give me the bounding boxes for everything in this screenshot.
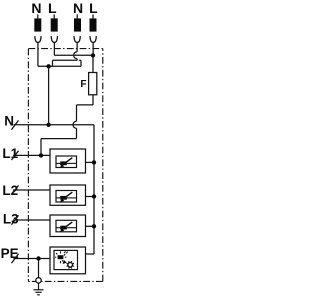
terminal circle (external PE) [36, 278, 41, 283]
ground [34, 283, 44, 295]
node SPD2 output [92, 194, 96, 198]
label PE (left) [1, 246, 19, 261]
terminal N2 label [73, 0, 83, 16]
wire to fuse [92, 55, 94, 72]
wire fuse output to feed [77, 104, 94, 106]
wire N1 down-right to jumper (wire A) [38, 65, 81, 67]
svg-text:N: N [73, 0, 83, 16]
SPD module L3 (U3) [50, 215, 94, 237]
node N-jumper junction [46, 64, 50, 68]
terminal L1(top) [51, 14, 58, 55]
node L-terminal junction [91, 53, 95, 57]
svg-text:F: F [80, 79, 86, 90]
wire L2 [13, 189, 50, 191]
arrow L3 entry [12, 215, 19, 224]
wire feed hop over N wire [73, 121, 77, 128]
wire L terminals bus (top) [54, 54, 93, 56]
node L1 [39, 153, 43, 157]
node SPD1 output [92, 160, 96, 164]
wire N bus down [93, 125, 95, 254]
wire jumper top (wire B) [53, 59, 78, 61]
terminal L1(top) label [48, 0, 57, 16]
terminal L2(top) label [89, 0, 98, 16]
label L1 (left) [2, 146, 18, 161]
node SPD3 output [92, 224, 96, 228]
spark gap electrode bar [58, 255, 64, 259]
arrowhead of discharge [63, 260, 67, 264]
terminal N1 [34, 14, 41, 66]
wire L1 [13, 154, 50, 156]
node N [46, 123, 50, 127]
SPD module L2 (U2) [50, 185, 94, 205]
wire riser left of jumper [52, 60, 54, 66]
wire riser right of jumper [80, 60, 82, 66]
terminal L2(top) [90, 14, 97, 55]
svg-text:L: L [48, 0, 57, 16]
terminal N2 [74, 14, 81, 51]
label N (left) [4, 114, 14, 129]
wire L3 [13, 219, 50, 221]
wire feed to L1 node [41, 138, 77, 140]
node PE [36, 256, 40, 260]
SPD module L1 (U1) [50, 149, 94, 173]
wire PE down to earth terminal [38, 259, 40, 278]
arrow PE entry [12, 254, 19, 263]
enclosure dash-dot border [28, 49, 102, 282]
arrow L1 entry [12, 151, 19, 160]
arrow L2 entry [12, 185, 19, 194]
fuse F [89, 73, 97, 95]
N-PE spark gap module (U4) [50, 247, 86, 274]
wire N2 hop over L wire [74, 52, 78, 59]
radiating sparks [55, 251, 68, 263]
svg-text:L3: L3 [3, 212, 19, 227]
svg-text:N: N [31, 0, 41, 16]
arrow N entry [12, 120, 19, 129]
label L2 (left) [2, 183, 18, 198]
svg-text:N: N [4, 114, 14, 129]
wire N [14, 124, 95, 126]
wire PE [14, 258, 51, 260]
svg-text:L: L [89, 0, 98, 16]
wire N vertical down to N node [48, 66, 50, 125]
terminal N1 label [31, 0, 41, 16]
label L3 (left) [3, 212, 19, 227]
gas discharge tube (gear) [68, 262, 73, 267]
